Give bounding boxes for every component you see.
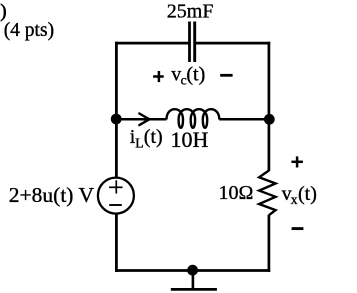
- svg-text:(t): (t): [144, 126, 163, 148]
- wire: bottom horizontal: [115, 269, 270, 272]
- polarity plus for vc(t): [153, 71, 164, 82]
- svg-text:2+8u(t) V: 2+8u(t) V: [9, 183, 95, 207]
- node B: right junction dot: [264, 114, 275, 125]
- polarity minus for vx(t): [292, 227, 304, 230]
- ground stub wire: [192, 270, 195, 289]
- svg-text:(t): (t): [186, 64, 205, 86]
- svg-text:x: x: [291, 192, 298, 207]
- svg-text:10Ω: 10Ω: [219, 182, 254, 204]
- voltage source minus sign: [109, 204, 122, 206]
- voltage source plus sign: [109, 186, 122, 188]
- node C: bottom junction dot: [187, 265, 198, 276]
- polarity minus for vc(t): [220, 74, 232, 77]
- wire: middle branch left lead: [116, 118, 166, 121]
- wire: right vertical lower (resistor to bottom corner): [268, 215, 271, 272]
- wire: left vertical lower (source to bottom corner): [115, 214, 118, 272]
- wire: top-left horizontal segment to capacitor: [115, 42, 190, 45]
- svg-text:(4 pts): (4 pts): [4, 20, 54, 41]
- svg-text:10H: 10H: [171, 127, 209, 152]
- ground bar: [171, 288, 217, 291]
- svg-text:25mF: 25mF: [167, 1, 214, 23]
- wire: top-right horizontal segment from capacitor: [195, 42, 271, 45]
- svg-text:): ): [0, 1, 6, 22]
- inductor L1 10H coil: [167, 109, 220, 128]
- arrow head: iL(t) current direction: [139, 114, 149, 126]
- resistor R1 10 ohm zigzag: [259, 171, 276, 216]
- svg-text:L: L: [135, 136, 143, 151]
- wire: middle branch right lead: [219, 118, 269, 121]
- polarity plus for vx(t): [291, 156, 303, 167]
- wire: left vertical upper (top corner to source): [115, 42, 118, 178]
- capacitor C1 25mF plates: [188, 22, 191, 63]
- wire: right vertical upper (top corner to resistor): [268, 42, 271, 171]
- node A: left junction dot: [111, 114, 122, 125]
- voltage source V1 circle: [98, 178, 134, 214]
- svg-text:(t): (t): [298, 183, 317, 205]
